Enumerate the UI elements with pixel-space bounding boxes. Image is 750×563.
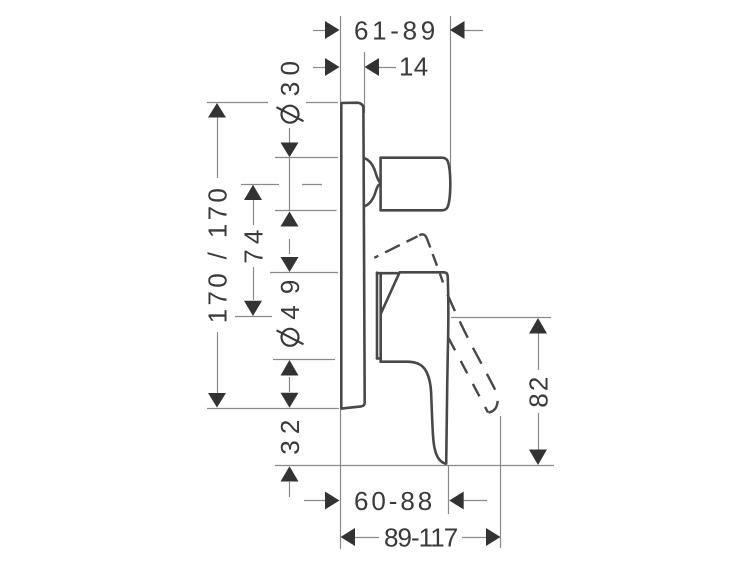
arrow dim 89-117 left	[341, 528, 356, 546]
arrow dim 82 bottom	[529, 450, 547, 466]
arrow dim 60-88 left	[325, 492, 340, 510]
arrow dim O30 upper	[281, 143, 299, 158]
wire: extension line wall x=340 top	[340, 16, 342, 102]
arrow dim 14 right	[365, 58, 380, 76]
lever collar left edge	[376, 273, 379, 359]
dashed lever up-position left edge	[374, 236, 417, 257]
lever collar right edge	[379, 273, 382, 362]
wire: dim 82 shaft upper	[538, 333, 540, 370]
lever blade underside curve to tip	[381, 362, 447, 464]
wire: knob centerline y=184 left segment	[241, 184, 279, 186]
lever collar bottom cap	[377, 357, 381, 360]
wire: extension line dashed handle tip x=500	[500, 416, 502, 548]
arrow dim 60-88 right	[449, 492, 464, 510]
wire: dim 60-88 right arrow tail	[463, 500, 487, 502]
arrow dim 170 top	[208, 103, 226, 118]
wire: dim 82 shaft lower	[538, 413, 540, 450]
wire: extension line solid handle tip x=449	[448, 466, 450, 514]
wire: dim 89-117 right shaft	[462, 537, 486, 539]
wire: extension line y=316.5 lever axis left	[235, 316, 272, 318]
wire: extension line y=317.5 lever axis right for 82	[451, 317, 551, 319]
wire: extension line wall x=340 bottom	[340, 409, 342, 549]
arrow dim 89-117 right	[486, 528, 501, 546]
wire: dimension chain x=289.5 between O30 and O49 arrows	[289, 239, 291, 254]
wire: extension line y=210.3 knob bottom	[275, 210, 337, 212]
dashed lever up-position right edge upper dashes	[433, 254, 443, 283]
wire: extension line y=272.8 lever top	[270, 272, 338, 274]
dashed lever up-position lower edge	[449, 338, 489, 413]
svg-text:14: 14	[399, 52, 431, 82]
wire: extension line y=359 collar bottom	[273, 359, 335, 361]
wire: extension line y=408.5 plate bottom	[207, 408, 339, 410]
arrow dim O49 lower	[281, 360, 299, 376]
wire: dim 74 shaft upper	[253, 200, 255, 225]
arrow dim O30 lower	[281, 212, 299, 227]
label dim O49 diameter symbol	[277, 329, 304, 346]
wire: dimension line 170/170 x=217 lower segment	[217, 332, 219, 393]
wire: dim 89-117 left shaft	[355, 537, 379, 539]
svg-text:74: 74	[238, 227, 268, 264]
knob (temperature handle) body	[381, 158, 451, 211]
arrow dim 74 bottom	[244, 301, 262, 316]
wire: dim 14 left arrow tail	[313, 67, 326, 69]
knob neck lower curve	[365, 184, 380, 206]
arrow dim 32 upper	[281, 393, 299, 408]
wire: dim 61-89 left arrow tail	[313, 30, 326, 32]
svg-text:170 / 170: 170 / 170	[202, 185, 232, 323]
wire: dimension line 170/170 x=217 upper segment	[217, 117, 219, 178]
arrow dim 61-89 right	[450, 21, 465, 39]
wire: dimension chain x=289.5 leader below O30 text	[289, 128, 291, 143]
arrow dim 170 bottom	[208, 393, 226, 408]
wire: dim 60-88 left arrow tail	[304, 500, 326, 502]
label dim O30 diameter symbol	[277, 106, 304, 123]
svg-text:60-88: 60-88	[354, 486, 435, 516]
wire: extension line knob front x=450	[450, 16, 452, 192]
svg-text:30: 30	[275, 58, 305, 96]
wire: dimension chain x=289.5 between O49 and 32 arrows	[289, 377, 291, 392]
arrow dim 74 top	[244, 185, 262, 200]
wire: extension line y=465.7 handle tip long	[275, 465, 554, 467]
svg-text:61-89: 61-89	[354, 16, 438, 46]
lever inner diagonal	[381, 273, 399, 313]
wire: dim 14 right arrow tail	[378, 67, 396, 69]
svg-text:49: 49	[275, 277, 305, 320]
lever body top edge and right edge down to tip	[377, 272, 448, 463]
arrow dim 14 left	[325, 58, 340, 76]
wire: extension line plate front x=365	[364, 52, 366, 113]
wire: knob centerline y=184 right segment	[302, 184, 322, 186]
svg-text:32: 32	[275, 417, 305, 455]
wire: extension line y=103 plate top right part	[306, 102, 338, 104]
svg-text:82: 82	[523, 374, 553, 408]
dashed lever up-position right edge lower dashes with tip arc	[448, 295, 498, 413]
arrow dim O49 upper	[281, 257, 299, 272]
arrow dim 32 lower	[281, 466, 299, 481]
dashed lever up-position apex bend dash	[419, 234, 430, 247]
wire: extension line y=157.5 knob top	[275, 157, 338, 159]
wire: extension line y=103 plate top left part	[207, 102, 268, 104]
wall plate	[341, 103, 364, 409]
arrow dim 82 top	[529, 318, 547, 334]
wire: dimension chain x=289.5 tail below 32 arrow	[289, 482, 291, 497]
arrow dim 61-89 left	[325, 21, 340, 39]
knob neck upper curve	[365, 158, 380, 181]
wire: dim 61-89 right arrow tail	[464, 30, 483, 32]
wire: dimension chain x=289.5 through knob span	[289, 157, 291, 211]
wire: dim 74 shaft lower	[253, 267, 255, 300]
svg-text:89-117: 89-117	[384, 522, 461, 552]
